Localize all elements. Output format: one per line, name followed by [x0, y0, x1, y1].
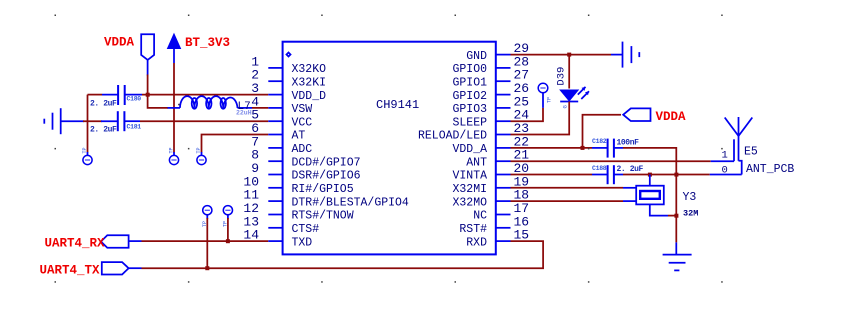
- svg-text:22uH: 22uH: [236, 110, 252, 117]
- svg-text:BT_3V3: BT_3V3: [185, 36, 230, 50]
- junction (227.9,241.1): [226, 239, 230, 243]
- left pin numbers: [243, 54, 259, 242]
- svg-text:C180: C180: [127, 95, 142, 102]
- svg-text:RXD: RXD: [466, 236, 487, 249]
- wire: crystal bottom to rail: [668, 215, 676, 217]
- ground (bottom right): [663, 242, 692, 270]
- capacitor C188: [592, 165, 644, 184]
- left pin names: [292, 63, 409, 249]
- svg-text:DSR#/GPIO6: DSR#/GPIO6: [292, 170, 361, 183]
- power port BT_3V3: [168, 34, 181, 63]
- svg-text:X32KO: X32KO: [292, 63, 327, 76]
- wire: vertical branch x=87.5 (gnd net): [87, 95, 89, 153]
- svg-text:VDD_A: VDD_A: [452, 143, 487, 156]
- test point TP4 (above UART4_TX): [202, 206, 212, 227]
- wire: ANT pin21 to antenna: [511, 160, 711, 162]
- svg-text:Y3: Y3: [683, 191, 697, 204]
- wire: X32MO pin18 to crystal: [511, 200, 624, 202]
- wire: VDDA branch up: [583, 115, 622, 148]
- wire: C180 right to VDD_D row: [142, 94, 268, 96]
- wire: RX row to pin14: [142, 240, 269, 242]
- svg-text:TP: TP: [196, 147, 202, 153]
- wire: C181 right to VCC row / chip pin5: [140, 120, 268, 122]
- test point TP6 (SLEEP): [538, 83, 552, 108]
- svg-text:C188: C188: [592, 165, 607, 172]
- svg-text:2. 2uF: 2. 2uF: [90, 126, 117, 135]
- svg-text:ADC: ADC: [292, 143, 313, 156]
- svg-text:E5: E5: [744, 145, 758, 158]
- svg-text:TP: TP: [547, 97, 553, 103]
- svg-text:TXD: TXD: [292, 236, 313, 249]
- junction (207.3,268.2): [205, 266, 209, 270]
- svg-text:14: 14: [243, 228, 259, 243]
- svg-text:0: 0: [722, 164, 728, 176]
- svg-text:D39: D39: [556, 67, 568, 86]
- svg-text:1: 1: [722, 150, 728, 162]
- test point TP1: [82, 147, 92, 164]
- svg-text:CTS#: CTS#: [292, 223, 320, 236]
- junction (676.3,174.5): [674, 173, 678, 177]
- svg-text:GND: GND: [466, 50, 487, 63]
- svg-text:GPIO1: GPIO1: [452, 76, 487, 89]
- svg-text:VDDA: VDDA: [656, 110, 687, 124]
- wire: VDD_A pin22 row: [511, 147, 593, 149]
- junction (582.5,147.9): [581, 146, 585, 150]
- power port VDDA (right): [623, 108, 650, 121]
- wire: D39 cathode to RELOAD/LED pin23: [511, 102, 570, 135]
- right pin names: [418, 50, 487, 250]
- wire: to C180 left: [88, 94, 103, 96]
- svg-text:C181: C181: [127, 124, 142, 131]
- wire: BT_3V3 stem down to TP2: [173, 63, 175, 153]
- svg-text:ANT: ANT: [466, 156, 487, 169]
- svg-text:RI#/GPIO5: RI#/GPIO5: [292, 183, 354, 196]
- junction (676.3,215.6): [674, 214, 678, 218]
- svg-text:GPIO3: GPIO3: [452, 103, 487, 116]
- svg-text:X32MI: X32MI: [452, 183, 487, 196]
- wire: D39 anode from GND net: [568, 55, 570, 89]
- right pin stubs 29-15: [496, 55, 511, 242]
- wire: X32MI pin19 to crystal: [511, 187, 624, 189]
- svg-text:100nF: 100nF: [617, 139, 640, 148]
- svg-text:VDD_D: VDD_D: [292, 90, 327, 103]
- svg-text:G: G: [562, 105, 569, 108]
- svg-text:AT: AT: [292, 130, 306, 143]
- svg-text:VSW: VSW: [292, 103, 313, 116]
- right pin numbers: [514, 41, 530, 243]
- ground (top right, rotated): [611, 42, 639, 68]
- port UART4_TX: [102, 262, 142, 274]
- svg-text:CH9141: CH9141: [376, 98, 419, 112]
- test point TP3: [196, 147, 206, 164]
- wire: GND pin29 to ground: [511, 54, 612, 56]
- wire: C182 right to gnd rail: [623, 148, 676, 243]
- svg-text:UART4_TX: UART4_TX: [40, 264, 101, 278]
- svg-text:2. 2uF: 2. 2uF: [90, 99, 117, 108]
- power port VDDA (top left): [141, 34, 154, 75]
- wire: TP4 stem to TX row: [206, 218, 208, 268]
- test point TP2: [169, 147, 179, 164]
- svg-text:RELOAD/LED: RELOAD/LED: [418, 130, 487, 143]
- wire: AT pin6 to TP3: [202, 135, 269, 153]
- left pin stubs 1-14: [268, 68, 282, 241]
- junction (147.6,94.6): [146, 93, 150, 97]
- LED D39: [556, 67, 590, 109]
- capacitor C180: [90, 85, 142, 108]
- svg-text:X32MO: X32MO: [452, 196, 487, 209]
- wire: VDDA stem down and corner to L7: [148, 75, 168, 108]
- svg-text:TP: TP: [169, 147, 175, 153]
- grid dots: [55, 15, 723, 283]
- wire: TP6 to SLEEP pin24: [511, 108, 544, 121]
- svg-text:VDDA: VDDA: [104, 36, 135, 50]
- wire: L7 to VSW pin4: [252, 107, 268, 109]
- ground (left): [44, 108, 84, 134]
- wire: VINTA pin20 row: [511, 174, 593, 176]
- svg-text:DCD#/GPIO7: DCD#/GPIO7: [292, 156, 361, 169]
- antenna E5: [710, 117, 795, 176]
- svg-text:15: 15: [514, 228, 530, 243]
- svg-text:C182: C182: [592, 138, 607, 145]
- svg-text:VCC: VCC: [292, 116, 313, 129]
- svg-text:GPIO2: GPIO2: [452, 90, 487, 103]
- svg-text:VINTA: VINTA: [452, 170, 487, 183]
- capacitor C182: [592, 138, 639, 157]
- wire: ground to C181 left plate: [83, 120, 102, 122]
- svg-text:UART4_RX: UART4_RX: [45, 237, 106, 251]
- junction (649.8,174.5): [648, 173, 652, 177]
- svg-text:DTR#/BLESTA/GPIO4: DTR#/BLESTA/GPIO4: [292, 196, 409, 209]
- test point TP5 (above UART4_RX): [223, 206, 233, 227]
- wire: TP5 stem to RX row: [227, 218, 229, 241]
- crystal Y3: [636, 175, 698, 219]
- wire: TX row to RXD pin15: [142, 241, 544, 268]
- svg-text:32M: 32M: [683, 208, 698, 218]
- svg-text:NC: NC: [473, 210, 487, 223]
- svg-text:GPIO0: GPIO0: [452, 63, 487, 76]
- svg-text:SLEEP: SLEEP: [452, 116, 487, 129]
- svg-text:TP: TP: [82, 147, 88, 153]
- svg-text:ANT_PCB: ANT_PCB: [746, 163, 794, 176]
- svg-text:2. 2uF: 2. 2uF: [617, 165, 644, 174]
- svg-text:RST#: RST#: [459, 223, 487, 236]
- wire: C188 right, to rail and antenna pin0: [623, 174, 710, 176]
- capacitor C181: [90, 111, 141, 134]
- svg-text:X32KI: X32KI: [292, 76, 327, 89]
- port UART4_RX: [101, 235, 142, 248]
- inductor L7: [168, 96, 253, 116]
- IC CH9141 body: [283, 42, 496, 255]
- svg-text:RTS#/TNOW: RTS#/TNOW: [292, 210, 354, 223]
- junction (569.2,54.6): [567, 53, 571, 57]
